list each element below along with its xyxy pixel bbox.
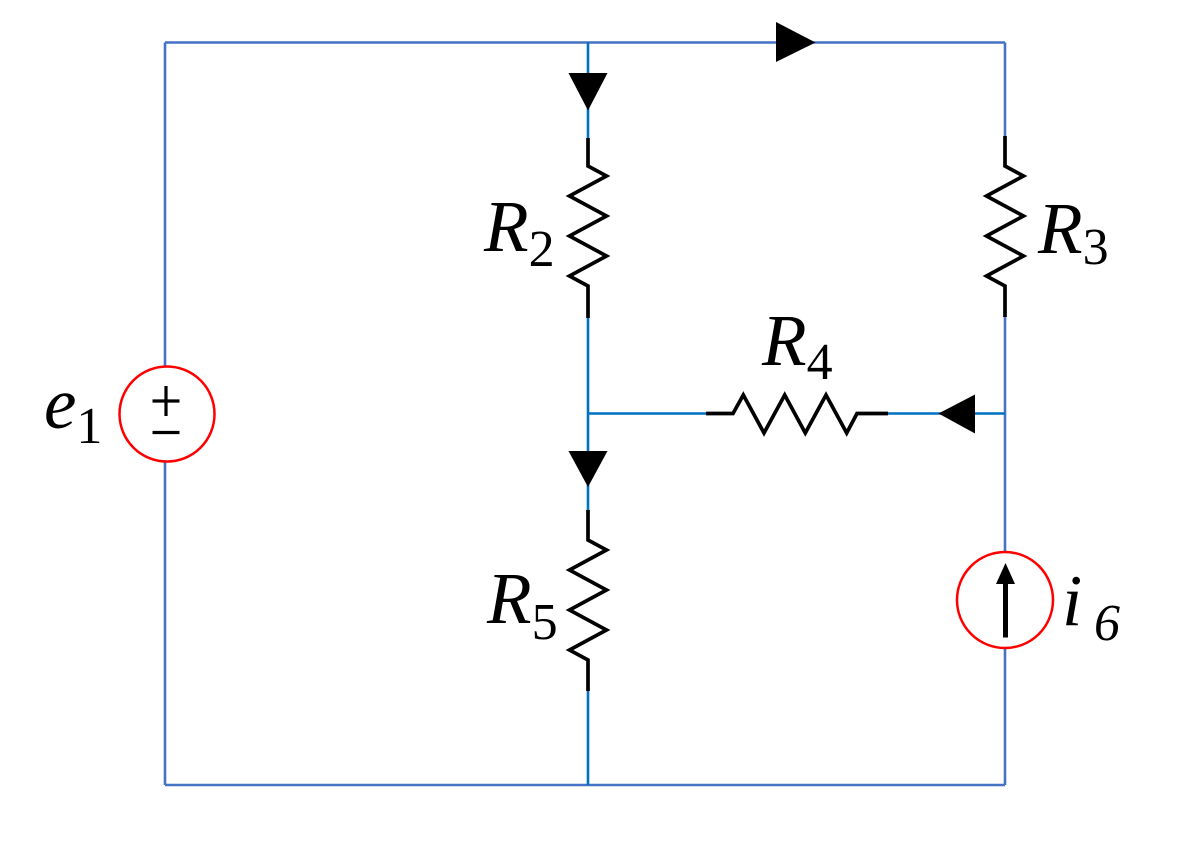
svg-text:e1: e1: [44, 363, 102, 455]
svg-text:R5: R5: [486, 558, 558, 651]
svg-text:6: 6: [1094, 595, 1120, 652]
svg-text:i: i: [1062, 560, 1082, 641]
svg-text:R2: R2: [483, 186, 555, 278]
svg-text:R3: R3: [1037, 188, 1109, 276]
svg-text:R4: R4: [761, 300, 833, 391]
